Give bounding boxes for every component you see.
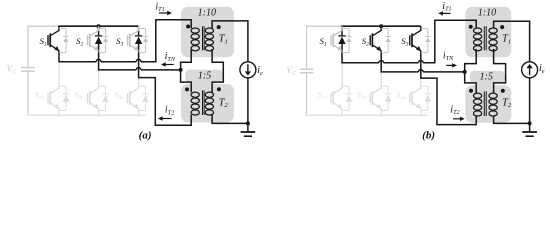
- wire current source to ground node: [529, 78, 531, 124]
- current source ie: [240, 62, 263, 78]
- transformer T1 primary winding: [191, 28, 199, 33]
- wire T2 secondary bottom to ground node: [212, 115, 248, 124]
- transformer T1 secondary winding: [489, 28, 497, 33]
- T2 polarity dot primary: [185, 87, 189, 91]
- switch S1n (bottom row, inactive): [318, 86, 353, 115]
- svg-text:1:10: 1:10: [198, 8, 216, 19]
- switch S2n (bottom row, inactive): [357, 86, 392, 115]
- ratio label chip 1:5 background: [470, 71, 505, 83]
- T1 polarity dot secondary: [217, 25, 221, 29]
- transformer T1 core: [483, 26, 485, 50]
- wire T1 secondary top to current source: [212, 21, 248, 62]
- switch S1 (top row): [40, 26, 69, 53]
- current label i_T1 with arrow: [438, 1, 451, 16]
- wire leg3 to T2 primary bottom (i_T2 net): [421, 53, 476, 125]
- ground symbol: [241, 123, 256, 136]
- wire leg2 to interstage node (i_TN net): [381, 53, 418, 72]
- T1 polarity dot primary: [186, 25, 190, 29]
- current source ie: [522, 62, 545, 78]
- ratio label chip 1:5 background: [185, 70, 222, 83]
- T1 polarity dot primary: [469, 25, 473, 29]
- leg 3 midpoint gray continuation wire: [420, 78, 422, 86]
- junction dot on top rail at leg 2: [97, 24, 101, 28]
- top rail gray part: [27, 25, 59, 27]
- transformer T2 core: [202, 90, 204, 115]
- current label i_T2 with arrow: [158, 105, 174, 121]
- top rail black part: [341, 25, 421, 27]
- transformer T2 primary winding: [191, 92, 199, 97]
- transformer T2 secondary winding: [489, 93, 497, 98]
- junction dot at ground node: [528, 121, 532, 125]
- switch S1 (top row): [320, 26, 352, 53]
- interstage wire T1 primary bottom to T2 primary top: [181, 49, 192, 92]
- wire current source to ground node: [247, 78, 249, 124]
- switch S3n (bottom row, inactive): [396, 86, 431, 115]
- transformer T1 secondary winding: [205, 28, 213, 33]
- svg-text:(b): (b): [422, 129, 435, 141]
- bottom rail: [27, 114, 145, 116]
- wire T1 secondary top to current source: [494, 21, 530, 62]
- leg 3 midpoint gray continuation wire: [138, 78, 140, 87]
- leg 2 midpoint gray continuation wire: [380, 72, 382, 86]
- wire leg1 to T1 primary top (i_T1 net): [342, 53, 379, 63]
- wire leg3 to T2 primary bottom (i_T2 net): [139, 53, 192, 125]
- switch S2n (bottom row, inactive): [74, 86, 109, 115]
- T1 polarity dot secondary: [500, 25, 504, 29]
- switch S3 (top row): [401, 26, 430, 53]
- svg-text:1:5: 1:5: [480, 72, 493, 83]
- switch S2 (top row): [362, 26, 391, 53]
- switch S3n (bottom row, inactive): [114, 86, 149, 115]
- leg 1 midpoint gray continuation wire: [58, 62, 60, 86]
- leg 1 midpoint gray continuation wire: [341, 63, 343, 86]
- switch S3 (top row): [116, 26, 148, 53]
- bottom rail: [306, 114, 428, 116]
- junction dot on top rail at leg 2: [379, 24, 383, 28]
- gray bridge between chip and T2 blob: [191, 80, 212, 87]
- top rail black part: [58, 25, 138, 27]
- wire T2 secondary bottom to ground node: [494, 116, 530, 124]
- transformer T1 background blob: [181, 7, 234, 58]
- current label i_T2 with arrow: [450, 104, 465, 121]
- T2 polarity dot primary: [469, 89, 473, 93]
- switch S1n (bottom row, inactive): [35, 86, 70, 115]
- junction dot at interstage node: [179, 68, 183, 72]
- top rail gray part: [306, 25, 342, 27]
- wire leg1 to T1 primary top (i_T1 net): [59, 53, 96, 62]
- gray bridge between chip and T2 blob: [476, 80, 493, 88]
- svg-text:1:10: 1:10: [478, 8, 496, 19]
- ground symbol: [522, 123, 537, 136]
- capacitor VC: [286, 26, 313, 115]
- interstage wire T1 primary bottom to T2 primary top: [465, 49, 477, 93]
- transformer T1 core: [202, 26, 204, 50]
- current label i_T1 with arrow: [155, 1, 172, 15]
- T2 polarity dot secondary: [501, 89, 505, 93]
- capacitor VC: [7, 26, 35, 115]
- transformer T2 background blob: [465, 85, 511, 123]
- junction dot at interstage node: [463, 70, 467, 74]
- transformer T2 primary winding: [473, 93, 481, 98]
- wire leg2 to interstage node (i_TN net): [99, 53, 137, 70]
- current label i_TN with arrow: [161, 51, 176, 67]
- interstage wire T1 secondary bottom to T2 secondary top: [494, 49, 506, 93]
- svg-text:1:5: 1:5: [198, 70, 211, 81]
- junction dot at ground node: [246, 121, 250, 125]
- transformer T2 background blob: [181, 84, 234, 123]
- interstage wire T1 secondary bottom to T2 secondary top: [212, 49, 223, 92]
- transformer T1 background blob: [465, 7, 511, 58]
- T2 polarity dot secondary: [217, 87, 221, 91]
- switch S2 (top row): [76, 26, 108, 53]
- transformer T2 core: [483, 91, 485, 116]
- current label i_TN with arrow: [443, 50, 457, 67]
- transformer T2 secondary winding: [205, 92, 213, 97]
- transformer T1 primary winding: [473, 28, 481, 33]
- svg-text:(a): (a): [139, 129, 152, 141]
- leg 2 midpoint gray continuation wire: [98, 70, 100, 86]
